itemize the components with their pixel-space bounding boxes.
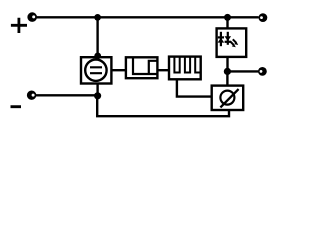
- wire U3 bottom to U5 left: [177, 79, 212, 96]
- terminal T2 (+ output right): [259, 13, 268, 22]
- box U1 (DC stabilizer): [81, 57, 111, 83]
- U5 symbol (circle with slash): [220, 89, 238, 107]
- wire junction B to U4 top: [226, 17, 228, 28]
- wire junction D to U5 top: [226, 71, 228, 85]
- plus polarity label: [11, 18, 27, 33]
- terminal T1 (+ input): [27, 12, 37, 22]
- wire junction A to U1 top: [96, 17, 98, 56]
- junction dot A (top rail above U1): [94, 14, 101, 21]
- box U3 (pulse generator): [169, 57, 201, 80]
- junction dot B (top rail above U4): [224, 14, 231, 21]
- diode D1 (pointing up): [218, 32, 225, 46]
- box U2 (threshold element): [126, 57, 157, 78]
- U2 step-function symbol: [133, 57, 157, 74]
- wire U1 to U2: [111, 69, 126, 71]
- junction dot D (below U4): [224, 68, 231, 75]
- junction dot at U1 top pin: [94, 53, 101, 60]
- U3 square-wave symbol: [174, 57, 200, 73]
- wire U2 to U3: [157, 69, 169, 71]
- wire U4 bottom to junction D: [226, 57, 228, 72]
- wire junction C down, bottom run, up to U5 bottom: [97, 96, 229, 116]
- terminal T4 (- output right): [258, 67, 267, 76]
- box U5 (regulating element): [212, 86, 244, 110]
- wire junction D to output terminal: [227, 70, 258, 72]
- junction dot C (below U1): [94, 92, 101, 99]
- LED D2 (pointing down, with emission arrows): [225, 32, 239, 48]
- box U4 (LED indicator): [217, 28, 247, 57]
- wire top rail: [37, 16, 259, 18]
- wire U1 bottom to junction C: [96, 84, 98, 96]
- wire bottom-left rail: [36, 94, 98, 96]
- U1 DC-source symbol (circle with two bars): [85, 59, 106, 80]
- minus polarity label: [11, 105, 22, 108]
- terminal T3 (- input): [27, 91, 36, 100]
